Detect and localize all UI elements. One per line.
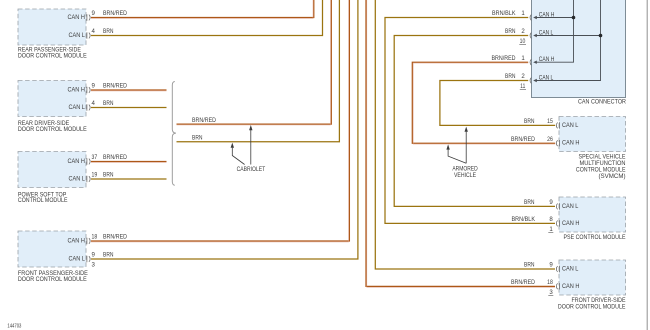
svg-text:(SVMCM): (SVMCM) [599,173,626,180]
svg-text:CAN L: CAN L [562,122,579,129]
svg-text:CAN H: CAN H [68,87,85,94]
wire BRN: CAN connector pin 2 to PSE CAN L [394,36,555,207]
pin 37 symbol [87,158,90,164]
pin 15 symbol [556,122,559,128]
svg-text:BRN/RED: BRN/RED [192,117,217,124]
svg-text:BRN/RED: BRN/RED [492,55,517,62]
svg-text:BRN/RED: BRN/RED [103,10,128,17]
svg-text:19: 19 [92,172,98,179]
pin 18 symbol [87,238,90,244]
fringe: brace output [177,0,331,125]
module: front passenger-side door control module (box) [18,231,90,283]
svg-text:37: 37 [92,154,98,161]
svg-text:CAN H: CAN H [68,158,85,165]
module: rear passenger-side door control module (box) [18,9,90,59]
pin 9 symbol [87,14,90,20]
svg-text:BRN: BRN [505,28,516,35]
wire BRN: brace output to top edge [177,0,340,142]
fringe: rear driver CAN H stub [91,90,167,92]
junction dot [599,34,603,38]
wire BRN: top edge down to front driver-side CAN L [375,0,555,269]
pin 18 symbol [556,283,559,289]
svg-text:CAN H: CAN H [562,283,579,290]
pin 19 symbol [87,176,90,182]
svg-text:VEHICLE: VEHICLE [454,172,476,179]
CAN connector internal net: CAN H link [533,0,575,64]
svg-text:9: 9 [549,199,553,206]
svg-text:BRN: BRN [103,172,114,179]
svg-text:CAN H: CAN H [562,140,579,147]
module: rear driver-side door control module (box) [18,81,90,133]
module: front driver-side door control module (box) [556,260,625,310]
svg-text:CAN L: CAN L [539,74,554,81]
fringe: connector to SVMCM CAN H [413,63,555,144]
svg-text:DOOR CONTROL MODULE: DOOR CONTROL MODULE [18,52,87,59]
brace joining rear driver + power soft top wires [172,82,176,186]
svg-text:BRN/RED: BRN/RED [103,234,128,241]
wire BRN/BLK: CAN connector pin 1 to PSE CAN H [385,18,555,224]
fringe: power soft top CAN H stub [91,161,167,163]
svg-text:144703: 144703 [7,324,21,330]
wire BRN: CAN connector pin 2 to SVMCM CAN L [440,81,555,126]
svg-text:8: 8 [549,216,553,223]
wire BRN/RED: rear passenger CAN H to top edge [91,0,314,18]
svg-text:CAN H: CAN H [539,56,555,63]
svg-text:CAN CONNECTOR: CAN CONNECTOR [578,99,627,106]
svg-text:BRN: BRN [103,28,114,35]
svg-text:BRN: BRN [103,100,114,107]
callout CABRIOLET with arrows to brace wires [231,125,266,173]
svg-text:15: 15 [547,118,553,125]
svg-text:BRN: BRN [103,252,114,259]
wire BRN: rear passenger CAN L to top edge [91,0,323,36]
svg-text:BRN/BLK: BRN/BLK [492,10,516,17]
wire BRN/RED: top edge down to front driver-side CAN H [366,0,555,286]
CAN connector pin 2 arc [530,33,531,39]
arrowheads [533,16,537,19]
wire BRN/RED: front passenger CAN H to top edge [91,0,349,241]
wire BRN: power soft top CAN L stub to brace [91,178,167,180]
labels: power soft top pins [92,154,128,179]
pin 9 symbol [87,87,90,93]
svg-text:CAN L: CAN L [539,29,554,36]
svg-text:2: 2 [521,28,525,35]
svg-text:BRN/RED: BRN/RED [511,136,536,143]
svg-text:CAN L: CAN L [69,32,86,39]
wire BRN/RED: brace output to top edge [177,0,332,124]
CAN connector internal net: CAN L link [533,0,602,82]
svg-text:CAN L: CAN L [69,256,86,263]
pin 4 symbol [87,32,90,38]
svg-text:PSE CONTROL MODULE: PSE CONTROL MODULE [564,234,626,241]
fringe: rear passenger CAN H [91,0,313,18]
pin 4 symbol [87,104,90,110]
labels: brace output wires [192,117,217,142]
svg-text:CAN H: CAN H [68,14,85,21]
module: special vehicle multifunction control module SVMCM (box) [556,117,625,180]
pin 9 symbol [556,203,559,209]
svg-text:CABRIOLET: CABRIOLET [237,166,266,173]
module: power soft top control module (box) [18,152,90,205]
wire BRN/RED: power soft top CAN H stub to brace [91,161,167,163]
svg-text:BRN/RED: BRN/RED [511,279,536,286]
svg-text:DOOR CONTROL MODULE: DOOR CONTROL MODULE [18,276,87,283]
red fringe on BRN/RED wires [91,0,555,287]
svg-text:26: 26 [547,136,553,143]
svg-text:18: 18 [92,234,98,241]
svg-text:CAN L: CAN L [69,104,86,111]
CAN connector pin 1 arc [530,15,531,21]
svg-text:CAN L: CAN L [69,176,86,183]
pin 9 symbol [556,266,559,272]
svg-text:BRN: BRN [505,73,516,80]
svg-text:CAN H: CAN H [539,11,555,18]
svg-text:BRN: BRN [524,199,535,206]
labels: rear passenger pins [92,10,128,35]
svg-text:18: 18 [547,279,553,286]
svg-text:BRN/BLK: BRN/BLK [512,216,536,223]
page right border line [646,0,648,330]
pin 9 symbol [87,256,90,262]
svg-text:1: 1 [521,55,525,62]
svg-text:BRN: BRN [192,135,203,142]
junction dot [572,16,576,20]
wire BRN/RED: CAN connector pin 1 to SVMCM CAN H [412,62,555,143]
svg-text:BRN/RED: BRN/RED [103,154,128,161]
wire BRN: front passenger CAN L to top edge [91,0,358,259]
CAN connector pin 2b arc [530,78,531,84]
svg-text:CONTROL MODULE: CONTROL MODULE [18,197,68,204]
fringe: front passenger CAN H [91,0,349,242]
CAN connector pin 1b arc [530,59,531,65]
pin 26 symbol [556,140,559,146]
svg-text:CAN H: CAN H [68,238,85,245]
svg-text:9: 9 [549,262,553,269]
svg-text:BRN: BRN [524,262,535,269]
svg-text:BRN: BRN [524,118,535,125]
svg-text:1: 1 [521,10,525,17]
labels: front passenger pins [92,234,128,269]
CAN connector (box) [532,0,627,106]
svg-text:2: 2 [521,73,525,80]
svg-text:BRN/RED: BRN/RED [103,83,128,90]
module: PSE control module (box) [556,197,625,241]
svg-text:CAN L: CAN L [562,266,579,273]
wire BRN: rear driver CAN L stub to brace [91,107,167,109]
wire BRN/RED: rear driver CAN H stub to brace [91,89,167,91]
pin 8 symbol [556,220,559,226]
svg-text:CAN H: CAN H [562,220,579,227]
svg-text:DOOR CONTROL MODULE: DOOR CONTROL MODULE [558,303,626,310]
arrowheads [533,34,537,37]
fringe: front driver-side CAN H [367,0,555,287]
svg-text:DOOR CONTROL MODULE: DOOR CONTROL MODULE [18,126,87,133]
callout ARMORED VEHICLE with arrows to SVMCM wires [446,127,478,180]
svg-text:CAN L: CAN L [562,203,579,210]
labels: rear driver pins [92,83,128,108]
